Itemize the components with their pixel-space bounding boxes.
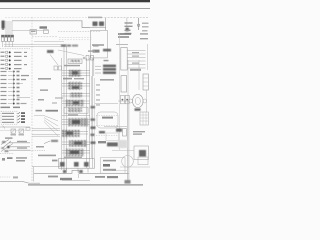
wire: fuse tails	[2, 41, 4, 47]
relay contact symbols	[18, 112, 26, 123]
connector P1 header block	[2, 21, 5, 29]
relay K9	[62, 130, 89, 137]
label above strip	[64, 157, 82, 158]
oven interior labels	[92, 44, 104, 46]
timer motor T1	[30, 30, 37, 34]
wire: double vertical right	[126, 100, 128, 183]
wire: harness verticals from P1	[5, 21, 7, 35]
switch row S17	[1, 99, 20, 101]
indicator row DS2	[1, 55, 28, 57]
wire: drops below strip	[66, 168, 68, 172]
switch bank S3	[143, 74, 148, 90]
label: timer	[40, 26, 48, 28]
wire: center-left double bus	[32, 128, 60, 130]
labels under heaters	[11, 134, 17, 135]
wire: lamp feed	[112, 150, 134, 152]
wire: diag lead to oven	[58, 50, 84, 56]
relay K5	[62, 100, 90, 107]
dark foot right	[125, 180, 131, 184]
relay K3	[62, 82, 90, 90]
label: fan	[88, 17, 102, 19]
ladder vertical buses	[61, 58, 63, 170]
contact list text	[2, 113, 14, 123]
fuse block F1..F4	[1, 35, 13, 41]
clock switch S1	[44, 30, 49, 34]
relay K8	[62, 118, 90, 126]
wire: dashed mid top	[58, 31, 100, 33]
switch row S12	[1, 79, 27, 81]
wire: right edge drop	[146, 90, 148, 112]
top horizontal rule	[0, 7, 150, 10]
entry components at oven wall	[83, 45, 99, 60]
wire: fan link	[90, 27, 106, 29]
node: junction on right vertical	[138, 18, 140, 30]
power entry cluster	[1, 140, 30, 153]
top right terminal labels	[125, 22, 133, 23]
wire: timer row	[12, 30, 48, 32]
motor M1	[118, 94, 147, 107]
shading wash	[118, 140, 127, 148]
fan motor B1	[93, 22, 105, 27]
indicator row DS1	[1, 51, 28, 53]
relay K1	[68, 59, 82, 63]
right note text	[133, 131, 145, 132]
wire: vertical right of ladder	[93, 58, 95, 76]
switch row S11	[1, 75, 30, 77]
dark mark	[116, 128, 122, 131]
relay K4	[62, 93, 90, 98]
wire fan-out diagonals	[34, 116, 58, 136]
control box mid right	[97, 112, 118, 128]
wire: dot column bus	[13, 71, 15, 104]
switch row S14	[1, 87, 20, 89]
right of ladder: element labels	[104, 60, 109, 62]
wire: right verticals upper	[119, 33, 121, 150]
selector switch S2	[121, 76, 127, 92]
switch row S10	[1, 71, 20, 73]
switch row S16	[1, 95, 31, 98]
relay K7	[62, 114, 90, 116]
arrow note	[44, 140, 58, 144]
wire: top dashed bus right	[5, 17, 98, 19]
wire: right edge vertical	[146, 44, 148, 70]
bottom annotations	[48, 176, 58, 178]
relay K2	[62, 70, 90, 77]
small box right bottom	[138, 157, 148, 165]
transformer box bottom right	[134, 146, 148, 160]
switch row S13	[1, 83, 24, 85]
wire: dashed stub bottom left	[0, 176, 10, 178]
heater boxes HTR1 HTR2	[0, 129, 30, 133]
relay K6	[64, 107, 88, 113]
switch row S15	[1, 91, 20, 93]
terminal lugs below strip	[63, 170, 66, 173]
connector J2 with pins	[121, 48, 146, 71]
transformer label row	[61, 45, 66, 47]
pilot lamp	[122, 156, 134, 168]
label row under switches	[1, 107, 11, 109]
wire: dashed pair above ladder	[59, 37, 92, 39]
sheet top edge band	[0, 0, 150, 2]
indicator row DS3	[1, 59, 22, 61]
pin labels J2	[132, 52, 139, 53]
box mid right lower	[106, 133, 118, 140]
bottom rule	[28, 184, 143, 186]
wire: mid right link	[104, 126, 127, 128]
label: primary	[47, 50, 54, 53]
wire: long horizontal right mid	[95, 102, 118, 104]
bottom right info box	[101, 158, 126, 174]
wire: bus lines center top	[34, 41, 64, 43]
wire: bottom left rail	[32, 166, 60, 168]
terminal blocks TB1	[54, 66, 57, 70]
oven box outline	[91, 30, 108, 58]
switch row S18	[1, 103, 27, 105]
terminal strip bottom of ladder	[59, 159, 95, 169]
dark text cluster	[107, 142, 118, 146]
aux contacts beside motor	[120, 95, 129, 103]
wire: dashed partition top	[32, 36, 58, 38]
indicator row DS5	[1, 67, 22, 69]
note text top right	[118, 33, 131, 35]
right area: labels above selector	[130, 69, 141, 71]
tick labels along bus	[96, 84, 100, 105]
wire: verticals right of ladder col	[91, 76, 93, 158]
wire: left bottom exit	[0, 181, 40, 183]
relay contact list dashed box	[1, 111, 17, 124]
relay K11	[62, 149, 90, 157]
heater grid right	[140, 112, 148, 125]
junction flecks on right bus	[91, 106, 96, 144]
indicator row DS4	[1, 63, 28, 65]
label top of lower cluster	[5, 137, 13, 138]
right edge pin labels	[142, 23, 149, 24]
wire: bottom run	[34, 170, 129, 173]
labels right of power entry	[17, 141, 27, 142]
note text lower left	[7, 157, 13, 159]
wire: arrow lead	[116, 43, 128, 45]
wire: dashed stub	[0, 153, 14, 155]
wire: diagonal lead	[50, 55, 58, 66]
wire: vertical drop at fan	[105, 18, 107, 30]
wire: main top feed L1	[12, 21, 90, 28]
wire: dashed stubs right mid	[96, 115, 118, 117]
center-left notes	[38, 78, 51, 80]
relay K10	[62, 140, 90, 147]
wire: lower left feeder	[0, 126, 30, 128]
label M	[126, 28, 129, 31]
label: motor	[135, 108, 141, 110]
wire: right vertical at x127 top	[126, 18, 128, 28]
wire: dashed partition vertical	[31, 17, 33, 182]
